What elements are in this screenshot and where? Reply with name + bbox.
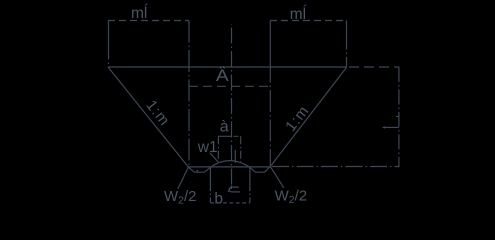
- wire right reservoir right edge: [346, 21, 348, 68]
- svg-text:mĺ: mĺ: [131, 4, 148, 22]
- wire right tailwater vertical dash-dot: [398, 67, 400, 167]
- wire left reservoir left edge: [108, 21, 110, 68]
- wire right notch: [250, 167, 271, 173]
- wire main ground line: [108, 66, 347, 68]
- node dot near left notch: [196, 170, 198, 172]
- node centerline: [231, 24, 233, 190]
- svg-text:à: à: [220, 118, 229, 135]
- wire small tick on right vertical: [396, 115, 399, 117]
- wire bottom dash-dot right: [272, 166, 399, 168]
- wire left notch: [188, 167, 210, 172]
- wire crest body bottom dashed: [210, 202, 250, 204]
- wire crest body left edge: [209, 167, 211, 186]
- wire right reservoir top dashed: [270, 20, 347, 22]
- wire crest arc: [210, 161, 250, 168]
- wire small a-rect top: [218, 135, 240, 137]
- wire bottom ground solid: [188, 166, 270, 168]
- node section line x270: [269, 61, 271, 167]
- wire c glyph: [229, 187, 240, 192]
- svg-text:w1: w1: [197, 139, 218, 156]
- wire short vertical near center: [234, 150, 236, 163]
- wire centerline arrow slash: [228, 185, 232, 191]
- wire w1 leader: [210, 153, 218, 163]
- svg-text:b: b: [214, 190, 223, 207]
- wire right slope 1:m: [270, 67, 346, 166]
- wire ground line dashed right: [349, 66, 399, 68]
- svg-text:mĺ: mĺ: [290, 5, 307, 23]
- wire left reservoir top dashed: [108, 20, 189, 22]
- wire crest body right edge: [249, 168, 251, 187]
- wire A level dashed line: [189, 85, 270, 87]
- wire right reservoir left edge solid part: [269, 21, 271, 61]
- wire small a-rect right edge: [240, 136, 242, 163]
- svg-text:Â: Â: [216, 66, 230, 85]
- wire left slope 1:m: [108, 67, 188, 167]
- node section line x189: [188, 21, 190, 167]
- wire small a-rect left edge: [217, 136, 219, 161]
- wire tailwater depth pointer: [384, 126, 399, 128]
- wire W2/2 left leader: [178, 167, 188, 189]
- arrowhead tailwater pointer: [382, 126, 385, 129]
- wire W2/2 right leader: [271, 167, 284, 188]
